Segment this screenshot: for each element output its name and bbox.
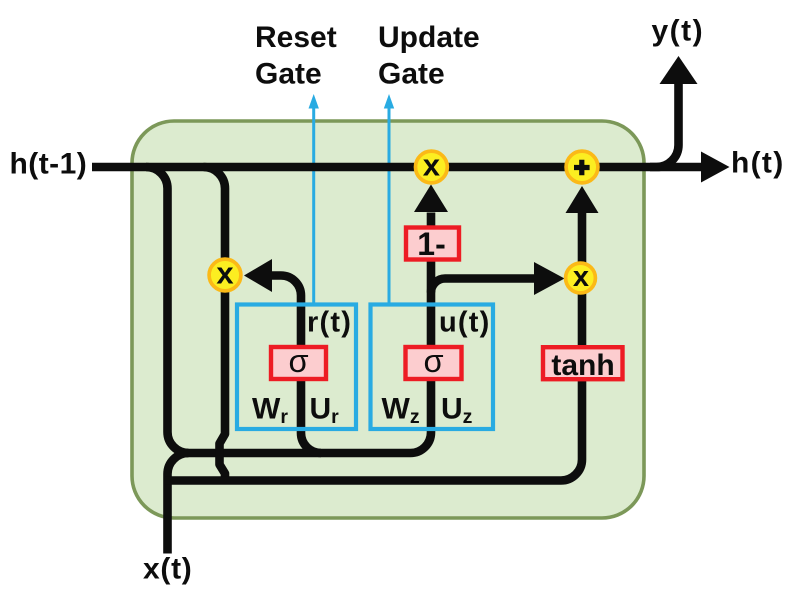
wire y(t) output branch [650,84,679,167]
svg-text:Gate: Gate [255,58,322,91]
GRU cell body [132,121,644,518]
label Update Gate [378,21,480,91]
wire H2 x(t) line rising into tanh [165,213,582,481]
svg-text:x: x [573,261,589,293]
right multiplier (candidate) [566,261,596,293]
svg-text:h(t): h(t) [731,147,785,180]
label Reset Gate [255,21,337,91]
wire reset gate unit with output to left multiplier [272,276,321,454]
arrow into multiplier on state line [414,185,448,213]
left multiplier (reset) [209,256,241,291]
arrow into adder [566,186,599,213]
svg-text:σ: σ [423,343,443,379]
adder on state line [566,151,598,183]
wire update output branch to candidate multiplier [431,279,534,293]
svg-text:σ: σ [288,343,308,379]
svg-text:Reset: Reset [255,21,337,54]
svg-text:Gate: Gate [378,58,445,91]
svg-text:r(t): r(t) [307,307,352,339]
blue line to reset gate label [309,94,319,304]
svg-text:y(t): y(t) [652,15,705,48]
tanh unit [543,347,623,382]
arrow into candidate multiplier [534,262,565,295]
wire branch h(t-1) down-left to H1 concat line [146,167,189,453]
svg-text:u(t): u(t) [439,307,491,339]
svg-text:tanh: tanh [551,349,614,382]
svg-text:1-: 1- [417,226,445,262]
arrow y(t) [660,56,698,84]
svg-text:Update: Update [378,21,480,54]
svg-text:x: x [423,148,441,183]
svg-text:h(t-1): h(t-1) [10,148,88,181]
reset gate box [237,305,356,430]
svg-text:x: x [216,256,234,291]
wire H1 concat line to update gate [185,213,431,454]
wire x(t) input rising to join H1 [168,453,189,554]
sigma unit update [406,343,462,379]
arrow into left multiplier [244,259,272,292]
blue line to update gate label [384,94,394,304]
update gate box [371,305,494,430]
svg-text:x(t): x(t) [143,553,192,586]
sigma unit reset [271,343,326,379]
multiplier on state line [416,148,448,183]
one-minus unit [406,226,459,262]
wire main state line h(t-1) to h(t) [92,163,702,172]
wire branch2 h(t-1) through left multiplier down to H2 [204,167,226,480]
arrow h(t) [701,152,730,183]
